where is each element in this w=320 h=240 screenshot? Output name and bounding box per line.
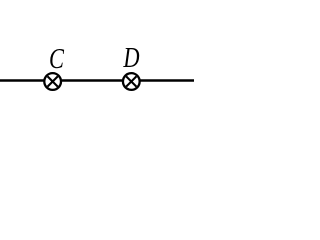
svg-text:D: D: [123, 43, 140, 74]
wire: [62, 79, 123, 82]
lamp D: [123, 73, 140, 90]
wire: [0, 79, 44, 82]
label C: [49, 44, 65, 75]
label D: [123, 43, 140, 74]
lamp C: [44, 73, 61, 90]
wire: [140, 79, 194, 82]
svg-text:C: C: [49, 44, 65, 75]
